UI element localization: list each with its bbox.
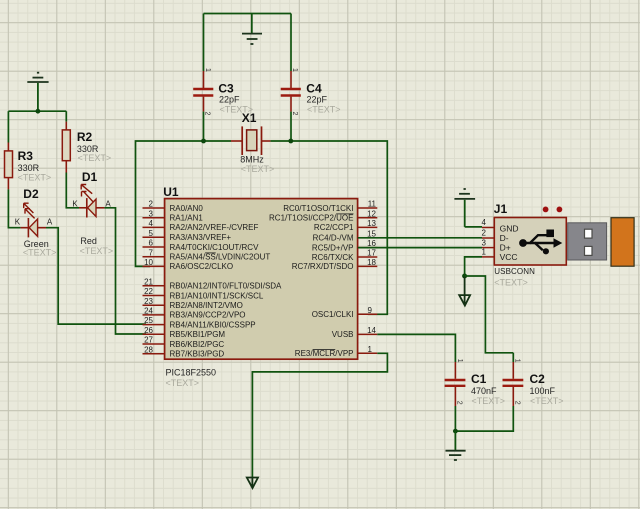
svg-text:J1: J1 [494,202,508,216]
svg-text:K: K [15,218,21,227]
usb trident icon [519,230,562,255]
svg-text:2: 2 [482,229,487,238]
svg-text:RB5/KBI1/PGM: RB5/KBI1/PGM [170,330,226,339]
node junction C3/rail [201,139,206,144]
svg-text:USBCONN: USBCONN [494,267,535,276]
svg-text:RB6/KBI2/PGC: RB6/KBI2/PGC [170,340,225,349]
LED D1 [72,170,113,256]
wire RC5 to J1 D+ [358,247,482,249]
svg-text:9: 9 [368,306,373,315]
svg-text:3: 3 [149,209,154,218]
svg-text:4: 4 [149,219,154,228]
svg-text:3: 3 [482,238,487,247]
wire crystal rail right to OSC1 [270,141,387,314]
svg-text:<TEXT>: <TEXT> [472,396,506,406]
svg-text:D1: D1 [82,170,98,184]
svg-text:A: A [47,218,53,227]
svg-text:RA1/AN1: RA1/AN1 [170,214,204,223]
wire VUSB to C1 [377,334,455,362]
ground (J1, bars up) [454,189,475,227]
wire C1/C2 bottom rail [455,406,513,431]
svg-text:1: 1 [204,68,211,72]
resistor R2 [62,122,111,173]
svg-text:RC2/CCP1: RC2/CCP1 [314,223,354,232]
U1 right pin stubs [358,208,378,353]
svg-text:R2: R2 [77,130,93,144]
wire to R3 [7,111,9,142]
svg-text:2: 2 [204,112,211,116]
svg-text:14: 14 [367,326,376,335]
wire R3 to D2 [8,189,20,227]
wire to R2 [65,111,67,121]
power arrow (down) [464,276,466,305]
capacitor C2 [503,359,564,406]
wire C2 top lead [512,353,514,362]
wire crystal rail left [136,141,232,266]
svg-text:6: 6 [149,239,154,248]
wire top rail C3-C4 [204,13,292,15]
usb plug body [611,218,634,267]
capacitor C4 [281,68,341,116]
svg-text:<TEXT>: <TEXT> [166,378,200,388]
U1 right pin numbers [367,200,376,354]
svg-text:OSC1/CLKI: OSC1/CLKI [312,310,354,319]
svg-text:<TEXT>: <TEXT> [80,246,114,256]
svg-text:RC0/T1OSO/T1CKI: RC0/T1OSO/T1CKI [283,204,353,213]
svg-text:1: 1 [456,359,463,363]
svg-text:RA4/T0CKI/C1OUT/RCV: RA4/T0CKI/C1OUT/RCV [170,243,260,252]
svg-text:<TEXT>: <TEXT> [23,247,57,257]
svg-text:RA0/AN0: RA0/AN0 [170,204,204,213]
svg-text:470nF: 470nF [471,386,497,396]
svg-text:2: 2 [149,200,154,209]
capacitor C3 [193,68,253,116]
svg-text:25: 25 [144,316,153,325]
svg-text:5: 5 [149,229,154,238]
svg-text:RB7/KBI3/PGD: RB7/KBI3/PGD [170,350,225,359]
svg-text:GND: GND [500,223,519,233]
svg-text:24: 24 [144,307,153,316]
ground (top middle) [242,14,262,45]
svg-text:RB1/AN10/INT1/SCK/SCL: RB1/AN10/INT1/SCK/SCL [170,291,264,300]
wire J1 GND [465,226,482,228]
svg-text:17: 17 [367,249,376,258]
svg-text:PIC18F2550: PIC18F2550 [166,368,217,378]
svg-text:<TEXT>: <TEXT> [78,153,112,163]
svg-text:RB4/AN11/KBI0/CSSPP: RB4/AN11/KBI0/CSSPP [170,320,256,329]
connector J1 [482,202,635,287]
ground (top left, bars up) [27,73,48,112]
svg-text:<TEXT>: <TEXT> [241,164,275,174]
wire J1 VCC down [465,257,482,276]
capacitor C1 [445,359,505,406]
svg-text:2: 2 [291,112,298,116]
svg-text:12: 12 [367,209,376,218]
svg-text:1: 1 [482,248,487,257]
U1 left pin stubs [143,208,165,354]
svg-text:X1: X1 [242,111,257,125]
svg-text:R3: R3 [18,149,34,163]
svg-text:21: 21 [144,277,153,286]
wire D2 to RB4 [46,228,146,324]
svg-text:23: 23 [144,297,153,306]
svg-text:1: 1 [368,345,373,354]
wire C4 top lead [290,14,292,72]
svg-text:RC6/TX/CK: RC6/TX/CK [312,253,354,262]
svg-text:C4: C4 [306,82,322,96]
svg-text:D-: D- [500,233,509,243]
IC U1 PIC18F2550 [165,199,358,360]
wire C4 bottom [290,112,292,141]
node junction bottom rail [453,429,458,434]
svg-text:1: 1 [513,359,520,363]
node junction left rail [36,109,41,114]
svg-text:27: 27 [144,336,153,345]
svg-text:18: 18 [367,258,376,267]
wire R2 to D1 [66,173,79,208]
svg-text:RC4/D-/VM: RC4/D-/VM [313,234,354,243]
svg-text:Red: Red [80,236,97,246]
wire D1 to RB5 [104,208,146,334]
svg-text:22: 22 [144,287,153,296]
wire C3 bottom [203,112,205,141]
svg-text:<TEXT>: <TEXT> [307,104,341,114]
svg-text:VCC: VCC [500,252,518,262]
svg-text:C3: C3 [218,82,234,96]
svg-text:22pF: 22pF [219,95,240,105]
wire RC4 to J1 D- [358,237,482,239]
svg-text:RC5/D+/VP: RC5/D+/VP [312,243,354,252]
svg-text:1: 1 [291,68,298,72]
U1 right pin names [269,204,354,358]
svg-text:RA6/OSC2/CLKO: RA6/OSC2/CLKO [170,262,234,271]
svg-text:22pF: 22pF [307,95,328,105]
svg-text:RC7/RX/DT/SDO: RC7/RX/DT/SDO [292,262,354,271]
resistor R3 [5,143,52,190]
svg-text:<TEXT>: <TEXT> [494,277,528,287]
svg-text:RA5/AN4/SS/LVDIN/C2OUT: RA5/AN4/SS/LVDIN/C2OUT [170,253,271,262]
svg-text:<TEXT>: <TEXT> [530,396,564,406]
svg-text:C2: C2 [530,372,546,386]
svg-text:28: 28 [144,345,153,354]
U1 left pin names [170,204,283,359]
wire VCC to C2 [465,276,514,353]
crystal X1 [231,111,274,174]
usb plug shield [568,223,607,260]
svg-text:D2: D2 [23,187,39,201]
pin1/pin2 indicator dots [543,207,549,213]
wire RE3/MCLR to arrow [252,353,387,477]
svg-text:4: 4 [482,218,487,227]
svg-text:RA2/AN2/VREF-/CVREF: RA2/AN2/VREF-/CVREF [170,223,259,232]
svg-text:C1: C1 [471,372,487,386]
svg-text:26: 26 [144,326,153,335]
svg-text:2: 2 [514,401,521,405]
wire left rail [8,110,66,112]
svg-text:K: K [72,200,78,209]
svg-text:VUSB: VUSB [332,330,354,339]
svg-text:10: 10 [144,258,153,267]
wire C3 top lead [203,14,205,72]
power arrow (down, bottom left) [251,477,253,487]
svg-text:RB3/AN9/CCP2/VPO: RB3/AN9/CCP2/VPO [170,311,246,320]
node junction C4/rail [288,139,293,144]
svg-text:7: 7 [149,248,154,257]
svg-text:RB0/AN12/INT0/FLT0/SDI/SDA: RB0/AN12/INT0/FLT0/SDI/SDA [170,282,283,291]
svg-text:100nF: 100nF [530,386,556,396]
svg-text:RE3/MCLR/VPP: RE3/MCLR/VPP [295,349,354,358]
svg-text:U1: U1 [163,185,179,199]
svg-text:RA3/AN3/VREF+: RA3/AN3/VREF+ [170,233,232,242]
svg-text:RC1/T1OSI/CCP2/UOE: RC1/T1OSI/CCP2/UOE [269,214,353,223]
svg-text:13: 13 [367,219,376,228]
svg-text:<TEXT>: <TEXT> [18,173,52,183]
svg-text:2: 2 [456,401,463,405]
LED D2 [15,187,57,257]
ground (bottom right, bars down) [446,431,466,460]
svg-text:330R: 330R [18,163,40,173]
svg-text:11: 11 [368,200,377,209]
U1 left pin numbers [144,200,153,355]
svg-text:RB2/AN8/INT2/VMO: RB2/AN8/INT2/VMO [170,301,243,310]
node VCC junction [462,274,467,279]
